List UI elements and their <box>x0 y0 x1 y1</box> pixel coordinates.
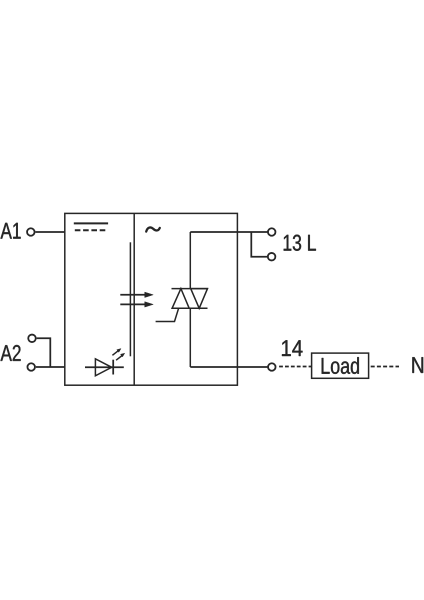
isolation barrier line <box>129 242 131 356</box>
divider between input and output sections <box>133 213 135 385</box>
wire triac branch upper <box>189 232 191 289</box>
dashed wire load to N <box>371 366 399 368</box>
terminal A1 <box>27 228 35 236</box>
DC symbol dashed line <box>75 229 106 231</box>
load box <box>312 353 369 378</box>
wire top rail to terminal 13 <box>190 231 268 233</box>
label Load <box>322 357 359 374</box>
triac Q1 gate <box>156 308 179 321</box>
terminal A2 lower <box>27 363 35 371</box>
LED light arrow 1 <box>112 349 121 356</box>
wire branch to terminal L <box>251 232 267 257</box>
wire bottom rail to terminal 14 <box>190 366 268 368</box>
terminal L <box>268 253 276 261</box>
triac Q1 bottom bar <box>172 307 208 309</box>
wire A2 upper jumper <box>37 338 51 367</box>
terminal 14 <box>268 363 276 371</box>
optocoupler arrow lower <box>120 302 153 307</box>
wire A2 to box <box>36 366 65 368</box>
LED D1 wire <box>85 366 124 368</box>
terminal 13 <box>268 228 276 236</box>
label A1 <box>1 223 21 239</box>
triac Q1 right triangle <box>191 289 208 309</box>
label 13 L <box>284 235 316 251</box>
relay body outline U1 <box>65 213 238 385</box>
optocoupler arrow upper <box>120 292 153 297</box>
triac Q1 top bar <box>172 288 209 290</box>
AC tilde symbol <box>146 227 160 231</box>
label A2 <box>1 345 21 361</box>
terminal A2 upper <box>28 335 36 343</box>
label 14 <box>282 340 303 356</box>
dashed wire terminal 14 to load <box>279 366 312 368</box>
LED light arrow 2 <box>116 353 125 360</box>
triac Q1 left triangle <box>172 289 189 309</box>
wire triac branch lower <box>189 308 191 367</box>
LED D1 triangle <box>95 359 111 376</box>
wire A1 to box <box>35 231 64 233</box>
label N <box>412 357 423 373</box>
DC symbol solid line <box>74 222 108 224</box>
LED D1 cathode bar <box>112 360 114 375</box>
